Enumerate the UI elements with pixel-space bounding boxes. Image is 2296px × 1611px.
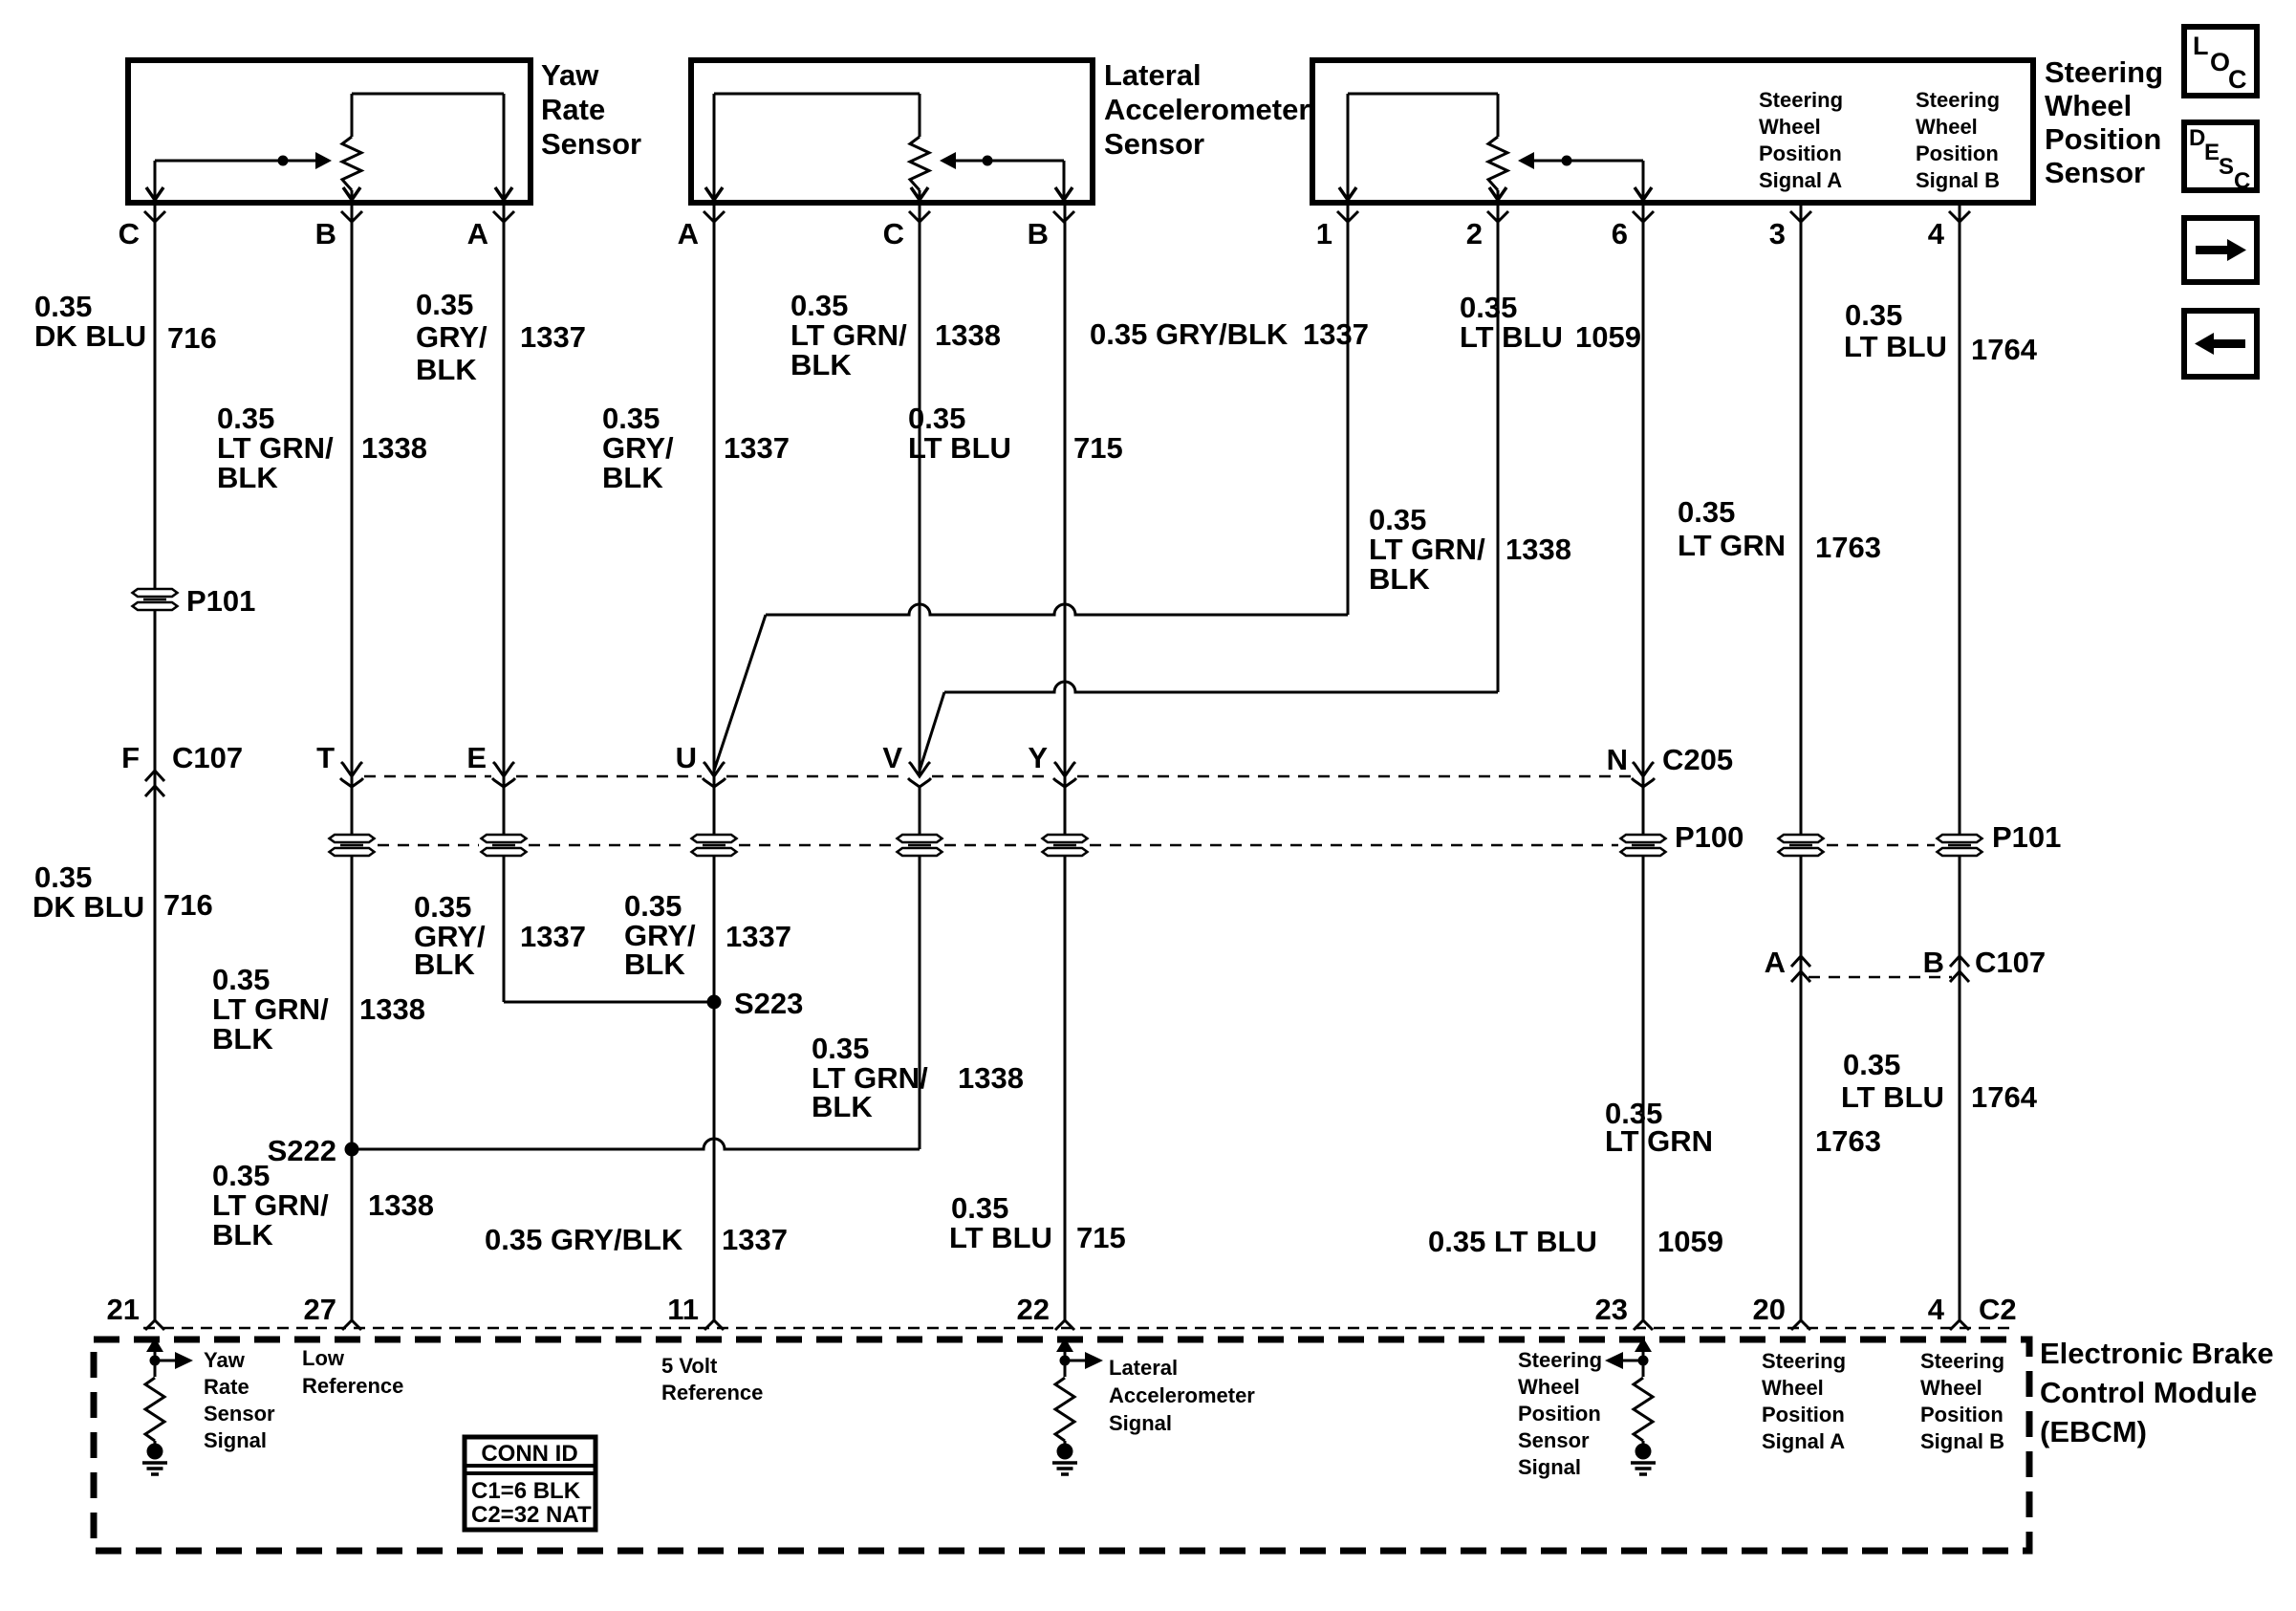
svg-text:O: O <box>2210 48 2230 76</box>
svg-text:E: E <box>466 741 487 774</box>
svg-text:0.35: 0.35 <box>414 890 471 924</box>
svg-text:Wheel: Wheel <box>1759 115 1821 139</box>
svg-text:Position: Position <box>1920 1403 2004 1426</box>
svg-text:LT BLU: LT BLU <box>908 431 1011 465</box>
svg-text:Yaw: Yaw <box>541 58 599 92</box>
svg-text:1338: 1338 <box>361 431 427 465</box>
svg-text:A: A <box>678 217 699 250</box>
svg-text:Steering: Steering <box>1920 1349 2004 1373</box>
svg-text:Signal A: Signal A <box>1762 1429 1845 1453</box>
svg-text:1337: 1337 <box>722 1223 788 1256</box>
svg-text:BLK: BLK <box>812 1090 873 1123</box>
svg-text:1059: 1059 <box>1575 320 1641 354</box>
svg-text:Low: Low <box>302 1346 345 1370</box>
svg-text:1059: 1059 <box>1657 1225 1723 1258</box>
svg-text:LT GRN/: LT GRN/ <box>217 431 334 465</box>
svg-text:LT BLU: LT BLU <box>1844 330 1947 363</box>
svg-text:P100: P100 <box>1675 820 1744 854</box>
svg-text:Control Module: Control Module <box>2040 1376 2257 1409</box>
svg-text:Reference: Reference <box>302 1374 403 1398</box>
svg-text:1763: 1763 <box>1815 531 1881 564</box>
svg-text:0.35: 0.35 <box>212 963 270 996</box>
svg-text:D: D <box>2189 125 2205 151</box>
svg-text:Rate: Rate <box>204 1375 249 1399</box>
svg-text:C1=6 BLK: C1=6 BLK <box>471 1478 581 1504</box>
svg-text:C205: C205 <box>1662 743 1733 776</box>
svg-text:A: A <box>1765 946 1786 979</box>
svg-text:BLK: BLK <box>217 461 278 494</box>
svg-text:Steering: Steering <box>1762 1349 1846 1373</box>
svg-text:LT GRN/: LT GRN/ <box>212 992 329 1026</box>
svg-text:21: 21 <box>107 1293 140 1326</box>
svg-text:Sensor: Sensor <box>1518 1428 1590 1452</box>
svg-text:LT GRN: LT GRN <box>1678 529 1786 562</box>
svg-text:C: C <box>2228 65 2247 94</box>
svg-text:LT GRN/: LT GRN/ <box>1369 533 1485 566</box>
svg-text:1763: 1763 <box>1815 1124 1881 1158</box>
svg-text:4: 4 <box>1928 217 1945 250</box>
svg-text:0.35: 0.35 <box>1678 495 1735 529</box>
svg-text:E: E <box>2204 140 2220 165</box>
svg-text:S223: S223 <box>734 987 803 1020</box>
svg-text:C2: C2 <box>1979 1293 2017 1326</box>
svg-text:0.35: 0.35 <box>1843 1048 1900 1081</box>
svg-text:Signal: Signal <box>1518 1455 1581 1479</box>
svg-text:0.35: 0.35 <box>624 889 682 923</box>
svg-text:0.35: 0.35 <box>34 290 92 323</box>
svg-text:Wheel: Wheel <box>1518 1375 1580 1399</box>
svg-text:4: 4 <box>1928 1293 1945 1326</box>
svg-text:S: S <box>2219 154 2234 180</box>
svg-text:Sensor: Sensor <box>541 127 641 161</box>
svg-text:LT BLU: LT BLU <box>1460 320 1563 354</box>
svg-text:C: C <box>119 217 140 250</box>
svg-text:27: 27 <box>304 1293 336 1326</box>
svg-text:N: N <box>1607 743 1628 776</box>
svg-text:0.35: 0.35 <box>791 289 848 322</box>
svg-text:P101: P101 <box>1992 820 2061 854</box>
svg-text:0.35 LT BLU: 0.35 LT BLU <box>1428 1225 1597 1258</box>
svg-text:716: 716 <box>167 321 217 355</box>
svg-text:715: 715 <box>1073 431 1123 465</box>
svg-text:BLK: BLK <box>624 947 685 981</box>
svg-text:Position: Position <box>2045 122 2161 156</box>
svg-text:LT GRN: LT GRN <box>1605 1124 1713 1158</box>
svg-text:(EBCM): (EBCM) <box>2040 1415 2147 1448</box>
svg-text:BLK: BLK <box>212 1022 273 1056</box>
svg-text:BLK: BLK <box>414 947 475 981</box>
svg-text:B: B <box>315 217 336 250</box>
svg-text:Position: Position <box>1762 1403 1845 1426</box>
svg-text:Rate: Rate <box>541 93 605 126</box>
svg-text:F: F <box>121 741 140 774</box>
svg-text:Position: Position <box>1759 142 1842 165</box>
svg-text:GRY/: GRY/ <box>416 320 487 354</box>
svg-text:LT BLU: LT BLU <box>949 1221 1052 1254</box>
svg-text:22: 22 <box>1017 1293 1050 1326</box>
svg-text:Position: Position <box>1916 142 1999 165</box>
svg-text:23: 23 <box>1595 1293 1628 1326</box>
svg-text:B: B <box>1923 946 1944 979</box>
svg-text:715: 715 <box>1076 1221 1126 1254</box>
svg-text:1764: 1764 <box>1971 1080 2038 1114</box>
svg-text:Y: Y <box>1028 741 1048 774</box>
svg-text:0.35 GRY/BLK: 0.35 GRY/BLK <box>485 1223 683 1256</box>
svg-text:Wheel: Wheel <box>1762 1376 1824 1400</box>
svg-text:1338: 1338 <box>935 318 1001 352</box>
svg-text:0.35: 0.35 <box>908 402 965 435</box>
svg-text:Wheel: Wheel <box>2045 89 2132 122</box>
svg-text:C: C <box>883 217 904 250</box>
svg-text:1337: 1337 <box>724 431 790 465</box>
svg-text:Signal: Signal <box>204 1428 267 1452</box>
svg-text:0.35: 0.35 <box>1845 298 1902 332</box>
svg-text:Sensor: Sensor <box>1104 127 1204 161</box>
svg-text:1337: 1337 <box>520 920 586 953</box>
svg-text:LT GRN/: LT GRN/ <box>791 318 907 352</box>
svg-text:Electronic Brake: Electronic Brake <box>2040 1337 2274 1370</box>
svg-text:LT BLU: LT BLU <box>1841 1080 1944 1114</box>
svg-text:DK BLU: DK BLU <box>34 319 146 353</box>
svg-text:Steering: Steering <box>1759 88 1843 112</box>
svg-text:C: C <box>2234 168 2250 194</box>
svg-text:Signal: Signal <box>1109 1411 1172 1435</box>
svg-text:Wheel: Wheel <box>1920 1376 1982 1400</box>
svg-text:Sensor: Sensor <box>204 1402 275 1426</box>
svg-text:C107: C107 <box>1975 946 2046 979</box>
svg-text:1337: 1337 <box>726 920 791 953</box>
svg-text:A: A <box>467 217 488 250</box>
svg-text:C107: C107 <box>172 741 243 774</box>
svg-text:1: 1 <box>1316 217 1332 250</box>
svg-text:0.35: 0.35 <box>1369 503 1426 536</box>
svg-text:Lateral: Lateral <box>1104 58 1202 92</box>
svg-text:Sensor: Sensor <box>2045 156 2145 189</box>
svg-text:0.35: 0.35 <box>1460 291 1517 324</box>
svg-text:BLK: BLK <box>1369 562 1430 596</box>
svg-text:0.35: 0.35 <box>951 1191 1008 1225</box>
svg-text:1337: 1337 <box>1303 317 1369 351</box>
svg-text:1338: 1338 <box>359 992 425 1026</box>
svg-text:0.35: 0.35 <box>217 402 274 435</box>
svg-text:BLK: BLK <box>791 348 852 381</box>
svg-text:0.35: 0.35 <box>812 1032 869 1065</box>
svg-text:11: 11 <box>667 1293 699 1326</box>
svg-text:0.35 GRY/BLK: 0.35 GRY/BLK <box>1090 317 1289 351</box>
svg-text:Steering: Steering <box>1518 1348 1602 1372</box>
svg-text:C2=32 NAT: C2=32 NAT <box>471 1502 592 1528</box>
svg-text:U: U <box>676 741 697 774</box>
svg-text:B: B <box>1028 217 1049 250</box>
svg-text:V: V <box>882 741 902 774</box>
svg-text:Wheel: Wheel <box>1916 115 1978 139</box>
svg-text:0.35: 0.35 <box>212 1159 270 1192</box>
svg-text:BLK: BLK <box>416 353 477 386</box>
svg-text:0.35: 0.35 <box>602 402 660 435</box>
svg-text:0.35: 0.35 <box>34 860 92 894</box>
svg-text:3: 3 <box>1769 217 1786 250</box>
svg-text:Steering: Steering <box>2045 55 2163 89</box>
svg-text:GRY/: GRY/ <box>602 431 674 465</box>
svg-text:Steering: Steering <box>1916 88 2000 112</box>
svg-text:LT GRN/: LT GRN/ <box>212 1188 329 1222</box>
svg-text:Accelerometer: Accelerometer <box>1109 1383 1255 1407</box>
svg-text:Accelerometer: Accelerometer <box>1104 93 1310 126</box>
svg-text:1764: 1764 <box>1971 333 2038 366</box>
svg-text:Signal B: Signal B <box>1920 1429 2004 1453</box>
svg-text:BLK: BLK <box>212 1218 273 1252</box>
svg-text:T: T <box>316 741 335 774</box>
svg-text:5 Volt: 5 Volt <box>661 1354 718 1378</box>
svg-text:Lateral: Lateral <box>1109 1356 1178 1380</box>
svg-text:2: 2 <box>1466 217 1483 250</box>
svg-text:716: 716 <box>163 888 213 922</box>
svg-text:L: L <box>2193 32 2209 60</box>
svg-text:BLK: BLK <box>602 461 663 494</box>
svg-text:1338: 1338 <box>368 1188 434 1222</box>
svg-text:Signal B: Signal B <box>1916 168 2000 192</box>
svg-text:20: 20 <box>1753 1293 1786 1326</box>
svg-text:1337: 1337 <box>520 320 586 354</box>
svg-text:Yaw: Yaw <box>204 1348 246 1372</box>
svg-text:Position: Position <box>1518 1402 1601 1426</box>
svg-text:0.35: 0.35 <box>416 288 473 321</box>
svg-text:Reference: Reference <box>661 1381 763 1404</box>
svg-text:6: 6 <box>1612 217 1628 250</box>
svg-text:1338: 1338 <box>958 1061 1024 1095</box>
svg-text:Signal A: Signal A <box>1759 168 1842 192</box>
svg-text:DK BLU: DK BLU <box>32 890 144 924</box>
svg-text:CONN ID: CONN ID <box>481 1441 577 1467</box>
svg-text:S222: S222 <box>268 1134 336 1167</box>
svg-text:P101: P101 <box>186 584 255 618</box>
svg-text:1338: 1338 <box>1505 533 1571 566</box>
